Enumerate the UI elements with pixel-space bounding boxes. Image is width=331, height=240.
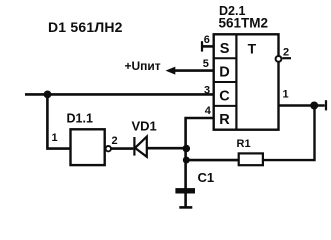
svg-text:1: 1 [283, 89, 289, 101]
svg-text:5: 5 [203, 58, 209, 70]
svg-text:561ТМ2: 561ТМ2 [219, 16, 269, 31]
flip-flop inner column divider [235, 34, 237, 129]
pin 3 clock wire [25, 93, 214, 96]
wire inverter output to diode [112, 147, 134, 150]
ground [179, 206, 192, 209]
inverter output bubble [106, 146, 111, 151]
inverter D1.1 body [71, 129, 105, 165]
node C junction dot [310, 102, 318, 110]
wire resistor R1 to right riser [263, 106, 315, 161]
pin 6 terminal tick [201, 41, 203, 51]
svg-text:+Uпит: +Uпит [125, 59, 161, 73]
svg-text:C1: C1 [198, 170, 215, 185]
svg-text:2: 2 [283, 46, 289, 58]
wire node B to resistor R1 [186, 159, 238, 162]
wire pin 4 reset down to node A and capacitor [186, 118, 214, 189]
pin 2 output bubble [276, 56, 282, 62]
flip-flop C/R divider [214, 105, 237, 107]
diode VD1 triangle [135, 137, 147, 157]
svg-text:T: T [248, 40, 257, 56]
capacitor C1 plates (merged in scan) [175, 188, 195, 193]
wire diode to node A [147, 147, 186, 150]
svg-text:D1.1: D1.1 [67, 112, 93, 126]
flip-flop U1 561TM2 body [214, 34, 279, 129]
svg-text:VD1: VD1 [132, 119, 157, 134]
svg-text:D: D [219, 65, 229, 81]
+Upit arrowhead [166, 67, 176, 75]
svg-text:4: 4 [205, 105, 212, 117]
wire capacitor to ground [184, 194, 187, 207]
pin 5 wire [174, 69, 214, 72]
svg-text:6: 6 [204, 34, 210, 46]
svg-text:R1: R1 [237, 138, 251, 150]
flip-flop S/D divider [214, 57, 237, 59]
resistor R1 body [239, 153, 263, 165]
svg-text:3: 3 [204, 85, 210, 97]
node junction dot on clock wire [44, 91, 52, 99]
svg-text:2: 2 [112, 135, 118, 147]
wire from clock node down to inverter input [47, 94, 70, 148]
pin 2 stub wire [282, 57, 291, 59]
svg-text:R: R [219, 112, 230, 128]
pin 1 terminal tick [325, 100, 327, 110]
svg-text:1: 1 [52, 132, 58, 144]
svg-text:C: C [219, 88, 230, 104]
diode VD1 cathode bar [133, 137, 135, 156]
pin 1 wire [279, 104, 325, 107]
flip-flop D/C divider [214, 81, 237, 83]
svg-text:D1 561ЛН2: D1 561ЛН2 [48, 19, 123, 35]
pin 6 stub wire [202, 45, 214, 48]
svg-text:S: S [220, 41, 230, 57]
node B junction dot [183, 157, 190, 164]
node A junction dot [183, 145, 191, 153]
